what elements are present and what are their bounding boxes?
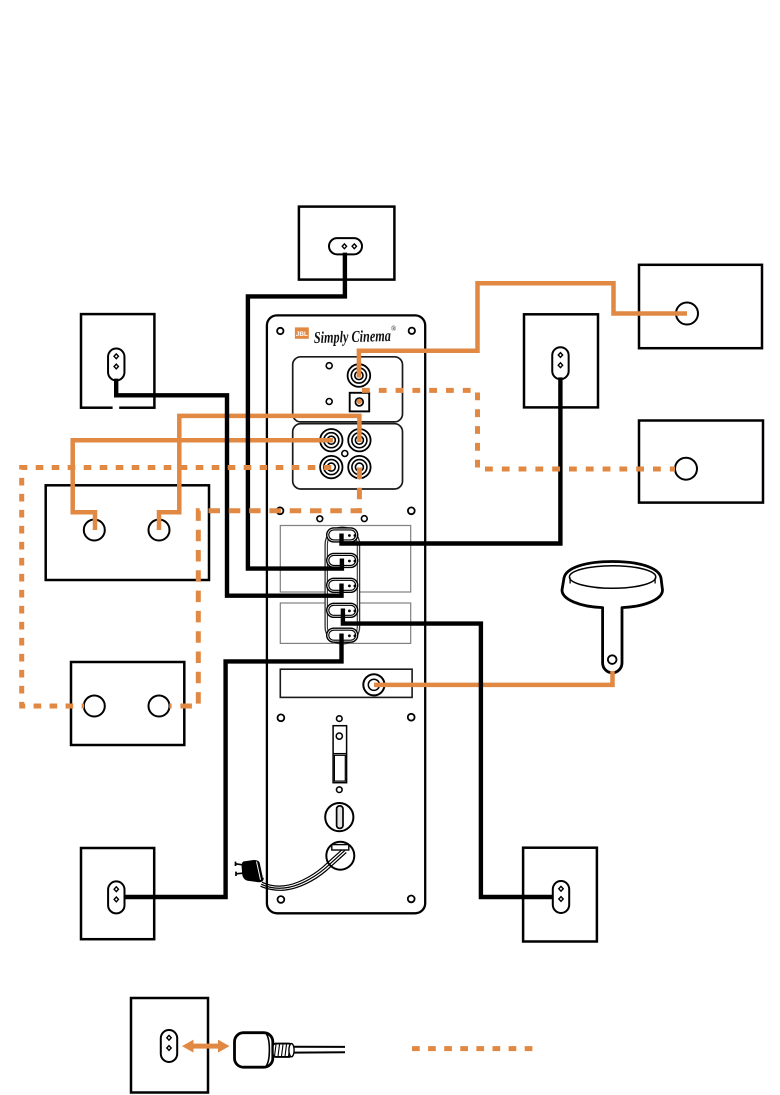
wire terminal2 to top speaker bbox=[248, 253, 345, 569]
screw hole in top section bbox=[326, 363, 332, 369]
speaker terminal 2 bbox=[327, 553, 358, 567]
panel screws bbox=[277, 328, 415, 903]
RCA jack L in bbox=[320, 429, 342, 451]
FM antenna section rect bbox=[280, 669, 412, 697]
wire terminal5 to bottom-left speaker bbox=[125, 634, 341, 898]
pins legend connector bbox=[167, 1035, 171, 1050]
connector oval bottom-left box bbox=[108, 881, 124, 913]
SECTION: orange solid wires bbox=[73, 283, 687, 685]
RCA sockets DVD box bbox=[84, 520, 105, 541]
SECTION: peripheral boxes bbox=[46, 207, 763, 1093]
legend double arrow bbox=[182, 1040, 230, 1053]
JBL logo bbox=[295, 327, 309, 338]
svg-text:®: ® bbox=[391, 325, 397, 333]
gap in bottom edge of upper-left box bbox=[113, 405, 120, 410]
wire terminal4 to bottom-right speaker bbox=[343, 609, 553, 898]
fuse holder bbox=[325, 803, 353, 831]
svg-text:Simply Cinema: Simply Cinema bbox=[314, 326, 391, 347]
legend speaker box bbox=[131, 998, 208, 1093]
wire terminal3 to upper-left speaker bbox=[116, 379, 341, 596]
cord clamp bbox=[332, 845, 349, 850]
connector oval bottom-right box bbox=[553, 881, 569, 913]
RCA socket top-right box bbox=[676, 303, 698, 325]
RCA jack L out bbox=[320, 456, 342, 478]
panel outline bbox=[267, 315, 425, 913]
voltage switch bbox=[333, 726, 347, 783]
legend plug connector bbox=[235, 1033, 295, 1068]
connector oval upper-left box bbox=[108, 349, 124, 381]
speaker box top (center channel) bbox=[299, 207, 395, 280]
RCA sockets VCR box bbox=[84, 696, 105, 717]
connector oval in top box bbox=[329, 238, 362, 254]
RCA jack R in bbox=[348, 429, 370, 451]
speaker terminal plate upper bbox=[280, 526, 410, 593]
mini jack square bbox=[350, 393, 370, 412]
mini jack bbox=[355, 398, 363, 406]
svg-text:JBL: JBL bbox=[296, 331, 308, 338]
pins bottom-left connector bbox=[114, 887, 118, 902]
speaker terminal 4 bbox=[327, 603, 358, 617]
SECTION: dashed orange wires bbox=[22, 390, 675, 1048]
SECTION: black speaker wires bbox=[116, 253, 560, 897]
dashed wire mini jack to lower-right source bbox=[362, 390, 675, 469]
small panel holes bbox=[317, 516, 367, 793]
speaker terminal plate lower bbox=[280, 603, 410, 643]
source box top-right bbox=[639, 265, 762, 348]
RCA jack R out bbox=[348, 456, 370, 478]
legend speaker cable lines bbox=[294, 1047, 345, 1053]
FM antenna jack bbox=[363, 674, 384, 695]
wire FM jack to antenna bbox=[374, 671, 613, 685]
connector oval legend box bbox=[161, 1030, 177, 1062]
wire terminal1 to mid-right speaker bbox=[342, 377, 561, 543]
pins bottom-right connector bbox=[559, 886, 563, 901]
terminal column outline bbox=[325, 527, 360, 644]
wire R-in to DVD right RCA bbox=[159, 416, 359, 530]
pins of top box connector bbox=[342, 244, 356, 249]
AC power cord bbox=[261, 849, 347, 890]
speaker box bottom-left bbox=[81, 848, 154, 939]
speaker terminal 5 bbox=[327, 628, 358, 642]
dashed wire L-out to VCR left RCA bbox=[22, 468, 332, 707]
DVD player box left bbox=[46, 485, 209, 580]
speaker box bottom-right bbox=[523, 848, 597, 942]
wire L-in to DVD left RCA bbox=[73, 440, 333, 530]
speaker terminal 3 bbox=[327, 578, 358, 592]
dashed wire R-out to VCR right RCA bbox=[169, 468, 359, 707]
source box lower-right bbox=[639, 421, 763, 503]
wire sub-input to top-right source bbox=[359, 283, 687, 377]
pins upper-left connector bbox=[114, 354, 118, 369]
speaker box upper-left bbox=[81, 314, 154, 408]
AC cord entry bbox=[326, 842, 354, 870]
AC plug bbox=[236, 860, 264, 882]
input section rect middle bbox=[293, 424, 403, 489]
FM antenna (T shape) bbox=[562, 562, 663, 673]
RCA jack sub input bbox=[348, 364, 371, 387]
speaker box mid-right bbox=[524, 314, 598, 407]
screw hole between RCAs bbox=[342, 451, 348, 457]
connector oval mid-right box bbox=[552, 347, 568, 379]
dashed legend line bbox=[412, 1046, 533, 1051]
RCA socket lower-right box bbox=[675, 458, 697, 480]
speaker terminal 1 bbox=[327, 528, 358, 542]
screw hole mid bbox=[326, 399, 332, 405]
input section rect top bbox=[293, 357, 403, 422]
VCR box lower-left bbox=[71, 662, 184, 745]
pins mid-right connector bbox=[558, 353, 562, 368]
